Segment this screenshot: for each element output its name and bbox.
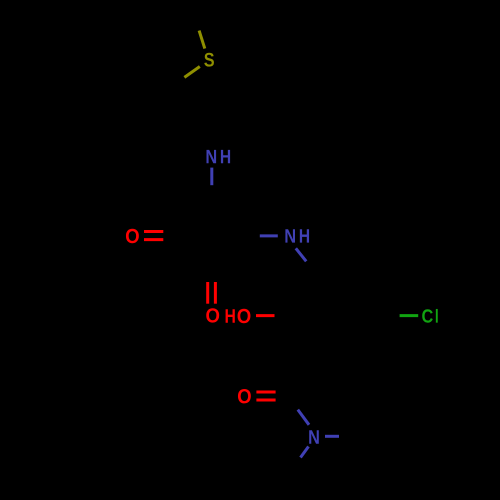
- wire N-CH3 right half-bond: [325, 435, 339, 438]
- double bond O=C4 left ketone upper red line: [144, 230, 163, 233]
- atom H of right NH aniline: [300, 229, 309, 242]
- double bond O=C3 bottom ketone left red line: [206, 282, 209, 304]
- double bond O=C amide upper red line: [256, 391, 275, 394]
- double bond O=C amide lower red line: [256, 399, 275, 402]
- atom S thiophene sulfur label: [204, 53, 214, 67]
- wire squarate C2 to right NH half-bond: [260, 234, 278, 237]
- atom O amide oxygen label: [238, 389, 251, 403]
- double bond O=C4 left ketone lower red line: [144, 238, 163, 241]
- atom N of right NH aniline: [285, 229, 295, 242]
- atom O of phenol HO: [238, 309, 251, 323]
- wire N-CH3 lower-left half-bond: [301, 447, 309, 458]
- wire Caryl-Cl half-bond: [400, 314, 419, 317]
- atom O bottom ketone oxygen label: [206, 308, 219, 322]
- wire phenol O-Caryl half-bond: [256, 314, 275, 317]
- wire thiophene C5-S half-bond: [199, 31, 205, 49]
- wire top NH to squarate C1 half-bond: [210, 168, 213, 186]
- atom C of chlorine label: [422, 309, 433, 322]
- atom N dimethylamide nitrogen label: [309, 430, 319, 443]
- atom O left ketone oxygen label: [126, 229, 139, 243]
- atom H of top NH amine: [221, 150, 230, 163]
- atom N of top NH amine: [207, 150, 217, 163]
- atom l of chlorine label: [436, 309, 438, 323]
- wire amide C-N half-bond: [298, 410, 309, 425]
- wire thiophene S-C2 half-bond: [184, 67, 199, 78]
- double bond O=C3 bottom ketone right red line: [214, 282, 217, 304]
- wire right NH to aryl C half-bond: [296, 248, 306, 261]
- atom H of phenol HO: [226, 309, 235, 322]
